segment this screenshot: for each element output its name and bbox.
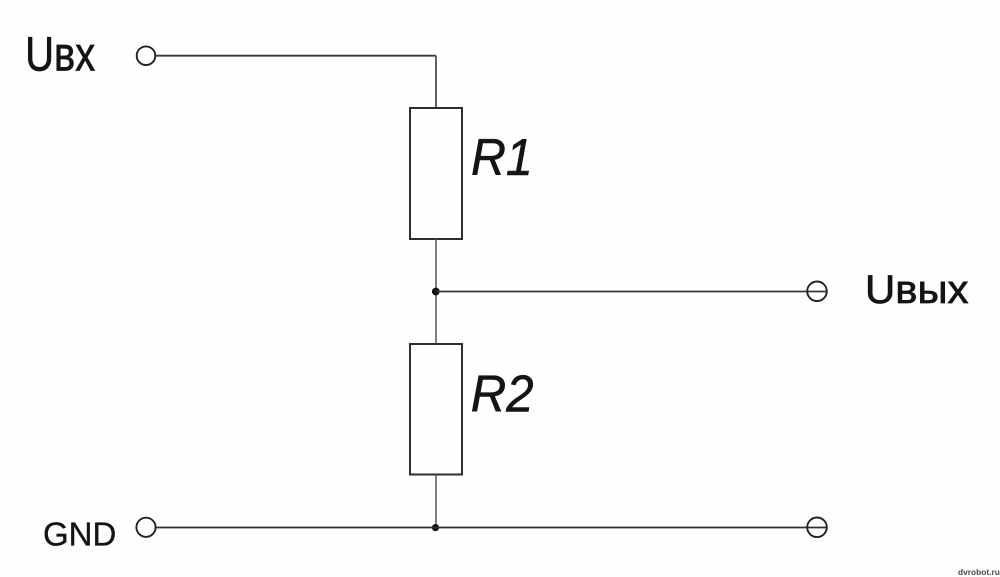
svg-text:Uвх: Uвх [25, 28, 95, 81]
wire input horizontal [156, 55, 436, 57]
terminal Uвх [137, 46, 156, 65]
terminal Uвых [807, 282, 827, 302]
junction node out [432, 288, 440, 296]
svg-text:R1: R1 [471, 128, 533, 186]
resistor R2 [410, 344, 462, 475]
svg-text:dvrobot.ru: dvrobot.ru [958, 567, 1000, 577]
svg-text:R2: R2 [471, 364, 534, 423]
wire R2 to ground rail [435, 475, 437, 528]
wire input vertical [435, 56, 437, 108]
resistor R1 [410, 108, 462, 239]
wire ground rail [156, 527, 827, 529]
svg-text:GND: GND [43, 516, 116, 553]
svg-text:Uвых: Uвых [865, 267, 968, 312]
wire node to output terminal [436, 291, 827, 293]
terminal GND right [807, 518, 827, 538]
terminal GND left [136, 518, 155, 537]
wire R1 to node [435, 239, 437, 344]
junction ground [432, 524, 439, 531]
